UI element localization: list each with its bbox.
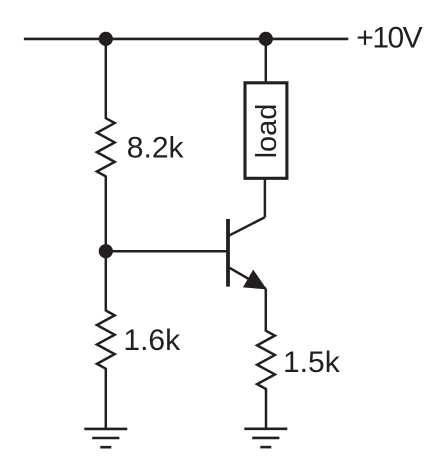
transistor Q1: emitter arrowhead bbox=[244, 271, 266, 289]
wire: rail to load box bbox=[265, 39, 268, 82]
wire: R1 bottom to base node bbox=[105, 176, 108, 252]
wire: R3 bottom to ground bbox=[265, 388, 268, 429]
transistor Q1: collector lead bbox=[229, 217, 265, 236]
load box bbox=[245, 83, 287, 179]
transistor Q1: emitter lead bbox=[229, 267, 266, 289]
wire: rail to R1 top bbox=[105, 39, 108, 119]
wire: emitter to R3 top bbox=[265, 289, 268, 332]
svg-text:8.2k: 8.2k bbox=[127, 131, 185, 164]
transistor Q1: base bar bbox=[226, 219, 230, 287]
node B: junction dot right on rail bbox=[259, 32, 273, 46]
wire: +10V supply rail bbox=[24, 38, 348, 41]
wire: base node to R2 top bbox=[105, 251, 108, 311]
node A: junction dot left on rail bbox=[99, 32, 113, 46]
node C: base divider junction dot bbox=[99, 244, 113, 258]
resistor R3 1.5k bbox=[257, 331, 275, 389]
svg-text:load: load bbox=[251, 104, 283, 159]
wire: R2 bottom to ground bbox=[105, 368, 108, 429]
wire: load box to collector bbox=[264, 178, 267, 217]
ground: left ground symbol bbox=[84, 429, 127, 447]
resistor R2 1.6k bbox=[97, 311, 115, 369]
svg-text:1.5k: 1.5k bbox=[283, 346, 341, 379]
ground: right ground symbol bbox=[244, 429, 287, 447]
wire: base node to transistor base bbox=[106, 250, 227, 253]
resistor R1 8.2k bbox=[97, 118, 115, 176]
svg-text:+10V: +10V bbox=[356, 22, 422, 55]
svg-text:1.6k: 1.6k bbox=[123, 324, 181, 357]
